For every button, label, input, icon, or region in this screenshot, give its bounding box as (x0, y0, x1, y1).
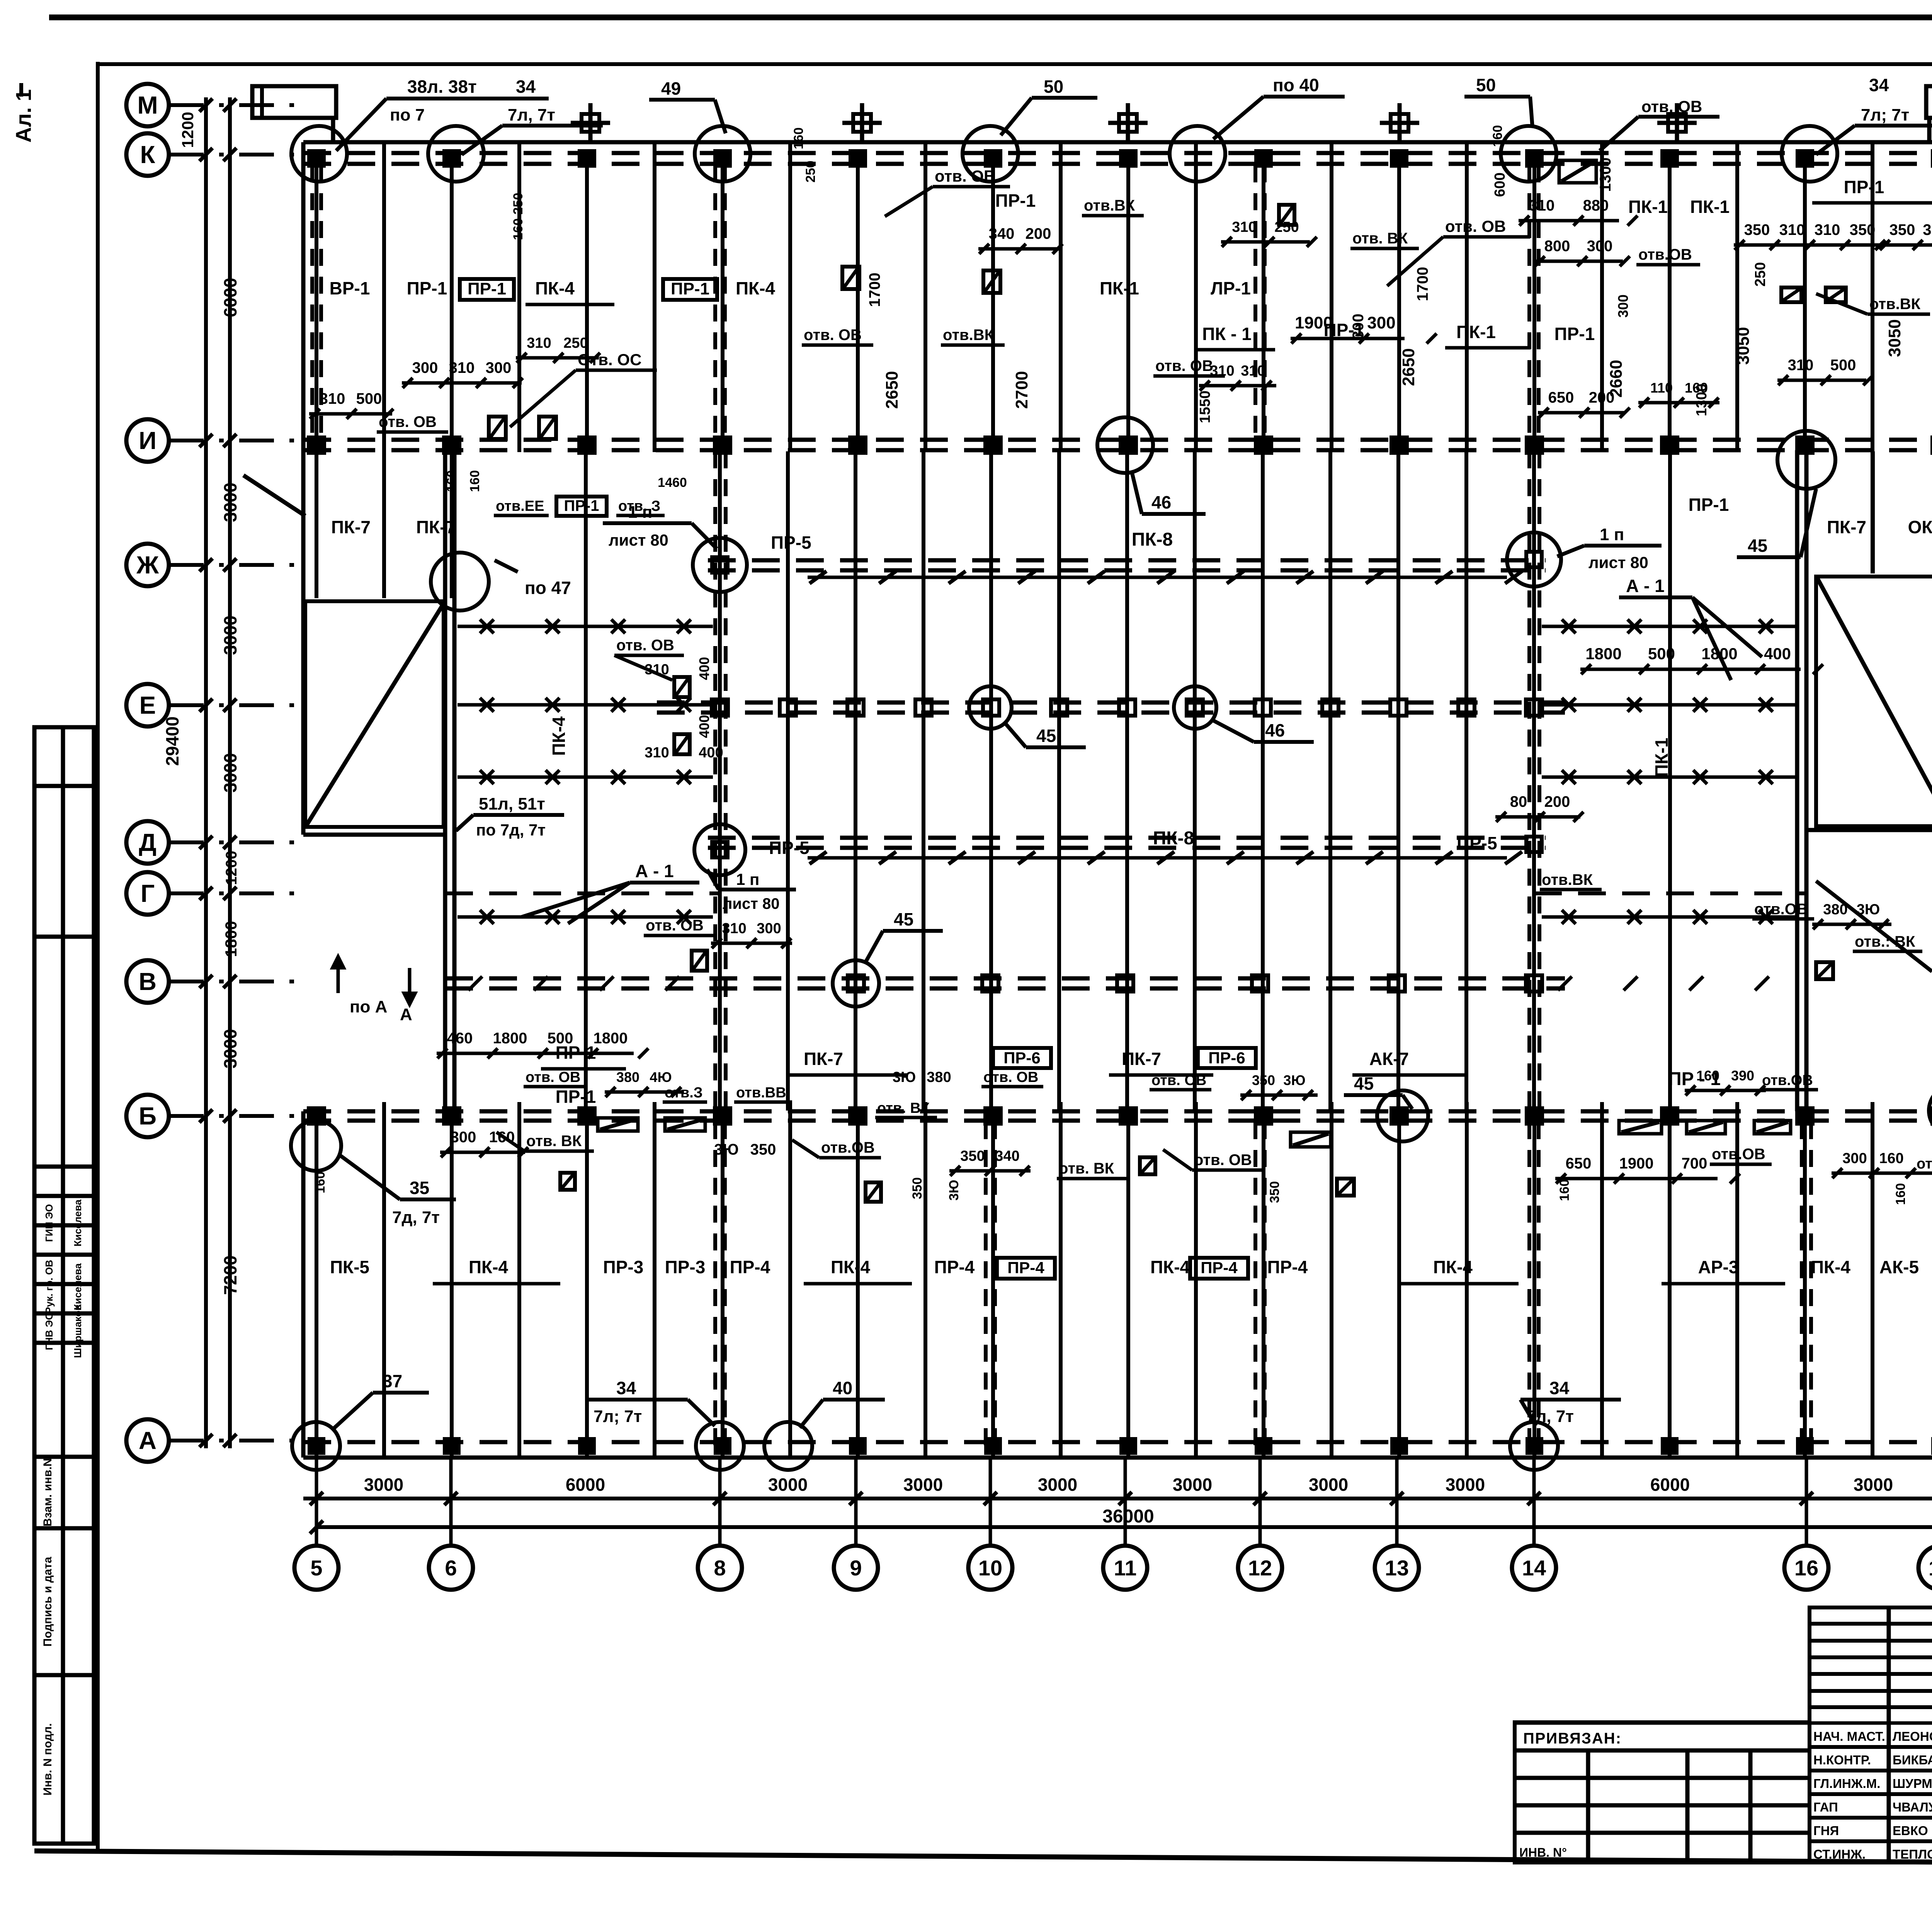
svg-text:лист 80: лист 80 (609, 531, 668, 549)
svg-text:ПР-4: ПР-4 (1201, 1259, 1238, 1277)
svg-text:отв.ЕЕ: отв.ЕЕ (496, 498, 544, 514)
svg-text:3000: 3000 (220, 1029, 240, 1068)
bottom band vent blocks (598, 1118, 638, 1131)
top band hole rect right (1279, 205, 1294, 225)
svg-text:310: 310 (320, 390, 345, 407)
svg-text:49: 49 (661, 78, 681, 99)
inner frame top line (98, 62, 1932, 66)
svg-text:1550: 1550 (1197, 391, 1213, 424)
detail circle corner B17 (1929, 1085, 1932, 1136)
svg-text:ПР-3: ПР-3 (665, 1257, 706, 1277)
svg-text:ПК-8: ПК-8 (1132, 529, 1173, 550)
svg-text:45: 45 (1748, 536, 1767, 556)
top band hole rect left (489, 417, 506, 439)
svg-text:А - 1: А - 1 (635, 861, 674, 881)
svg-text:7л, 7т: 7л, 7т (508, 105, 555, 124)
svg-text:ПК-7: ПК-7 (1122, 1049, 1161, 1069)
svg-text:ПК-7: ПК-7 (1827, 517, 1866, 537)
svg-text:ПР-1: ПР-1 (1554, 324, 1595, 344)
svg-text:ПР-4: ПР-4 (934, 1257, 975, 1277)
svg-text:110: 110 (1650, 380, 1673, 396)
svg-text:45: 45 (894, 909, 913, 929)
svg-text:ГЛ.ИНЖ.М.: ГЛ.ИНЖ.М. (1813, 1776, 1880, 1791)
svg-text:380: 380 (927, 1069, 951, 1085)
svg-text:АК-7: АК-7 (1369, 1049, 1409, 1069)
row V side ticks (468, 976, 482, 990)
svg-text:Рук. гр. ОВ: Рук. гр. ОВ (43, 1260, 55, 1313)
slab end ticks on rows B and A (382, 1102, 386, 1124)
svg-text:ПРИВЯЗАН:: ПРИВЯЗАН: (1523, 1730, 1622, 1747)
row D PR-5 squares (712, 842, 728, 857)
svg-text:500: 500 (1830, 357, 1856, 374)
svg-text:Подпись и дата: Подпись и дата (41, 1556, 54, 1647)
svg-text:отв. ОВ: отв. ОВ (983, 1069, 1038, 1085)
svg-text:ПК-1: ПК-1 (1628, 197, 1668, 217)
svg-text:ПР-1: ПР-1 (407, 278, 447, 298)
svg-text:ГНЯ: ГНЯ (1813, 1823, 1839, 1838)
svg-text:340: 340 (989, 225, 1015, 242)
svg-text:350: 350 (1252, 1072, 1275, 1088)
detail circle corner B5 (291, 1121, 341, 1171)
svg-text:по 7: по 7 (390, 105, 425, 124)
svg-text:300: 300 (757, 920, 781, 937)
svg-text:3000: 3000 (1446, 1475, 1485, 1495)
svg-text:160: 160 (1893, 1183, 1908, 1205)
axis leader line Ж (169, 563, 304, 567)
column symbols above row K (582, 114, 599, 132)
svg-text:1700: 1700 (866, 273, 883, 307)
wing I-Zh right verticals (1871, 451, 1874, 573)
svg-text:300: 300 (1615, 294, 1631, 318)
detail circle corner A5 (292, 1422, 340, 1470)
svg-text:1 п: 1 п (736, 870, 759, 888)
svg-text:Киселева: Киселева (72, 1199, 83, 1247)
left wing joint tick rows (457, 625, 713, 628)
column squares on row A (310, 1439, 323, 1453)
bottom overall dimension line 36000 (316, 1525, 1932, 1529)
svg-text:9: 9 (850, 1556, 862, 1580)
svg-text:отв. ОВ: отв. ОВ (616, 637, 674, 654)
svg-text:600: 600 (1492, 172, 1508, 197)
inner frame left line (96, 62, 100, 1853)
svg-text:35: 35 (410, 1178, 429, 1198)
svg-text:460: 460 (447, 1030, 473, 1047)
svg-text:7д, 7т: 7д, 7т (392, 1208, 440, 1227)
svg-text:800: 800 (1544, 238, 1570, 255)
section mark po A left (337, 968, 340, 993)
svg-text:1300: 1300 (1694, 384, 1710, 417)
svg-text:34: 34 (1869, 75, 1889, 95)
svg-text:ПР-1: ПР-1 (556, 1043, 596, 1063)
svg-text:3Ю: 3Ю (1283, 1072, 1305, 1088)
svg-text:11: 11 (1114, 1556, 1136, 1580)
axis leader line В (169, 980, 304, 983)
svg-text:ПР-1: ПР-1 (1844, 177, 1884, 197)
row E column squares (712, 699, 728, 716)
svg-text:отв.ОВ: отв.ОВ (1754, 901, 1808, 918)
title block signature rows (1810, 1745, 1932, 1749)
svg-text:ПР-5: ПР-5 (771, 532, 811, 553)
beam row V dashed lines (445, 976, 1565, 981)
axis circle Е (126, 684, 169, 726)
svg-text:ГАП: ГАП (1813, 1800, 1838, 1814)
svg-text:650: 650 (1566, 1155, 1592, 1172)
svg-text:700: 700 (1682, 1155, 1708, 1172)
svg-text:160: 160 (791, 128, 806, 150)
svg-text:3000: 3000 (768, 1475, 808, 1495)
svg-text:ЧВАЛУН: ЧВАЛУН (1893, 1800, 1932, 1814)
svg-text:3050: 3050 (1734, 327, 1753, 365)
svg-text:ГНВ ЭО: ГНВ ЭО (43, 1312, 55, 1350)
svg-text:М: М (137, 91, 158, 119)
stair diagonal marks far left (243, 475, 305, 516)
axis leader line И (169, 439, 304, 442)
axis circle В (126, 960, 169, 1003)
svg-text:160: 160 (468, 470, 482, 492)
left stamp column outline (34, 727, 94, 1844)
svg-text:отв. ВК: отв. ВК (1059, 1160, 1114, 1177)
svg-text:ТЕПЛОВА: ТЕПЛОВА (1893, 1847, 1932, 1861)
middle wall axis 8 dashed (713, 451, 717, 1111)
svg-text:400: 400 (696, 715, 712, 738)
svg-text:А - 1: А - 1 (1626, 576, 1665, 596)
svg-text:7200: 7200 (220, 1255, 240, 1295)
svg-text:46: 46 (1265, 720, 1285, 740)
svg-text:3000: 3000 (220, 753, 240, 793)
svg-text:А: А (400, 1005, 412, 1024)
title block main divider row (1515, 1721, 1932, 1725)
svg-text:8: 8 (714, 1556, 726, 1580)
svg-text:390: 390 (1731, 1068, 1754, 1084)
svg-text:ПК-4: ПК-4 (736, 278, 775, 298)
svg-text:ОК-7: ОК-7 (1908, 517, 1932, 537)
svg-text:отв.З: отв.З (665, 1085, 703, 1101)
svg-text:51л, 51т: 51л, 51т (479, 794, 545, 813)
svg-text:СТ.ИНЖ.: СТ.ИНЖ. (1813, 1847, 1866, 1861)
svg-text:340: 340 (995, 1148, 1019, 1164)
svg-text:34: 34 (616, 1378, 636, 1398)
top band wall axis 8 dashed (713, 165, 717, 438)
svg-text:по 7д, 7т: по 7д, 7т (476, 821, 546, 839)
bottom band slab joint verticals (315, 1122, 318, 1458)
svg-text:отв.ОВ: отв.ОВ (1638, 246, 1692, 263)
svg-text:ПК-1: ПК-1 (1100, 278, 1139, 298)
svg-text:310: 310 (1232, 219, 1256, 235)
svg-text:Г: Г (141, 879, 155, 907)
svg-text:ПК-1: ПК-1 (1651, 738, 1672, 777)
svg-text:160 250: 160 250 (511, 193, 526, 240)
svg-text:1800: 1800 (1585, 645, 1621, 663)
svg-text:отв. ВК: отв. ВК (1352, 230, 1408, 247)
svg-text:ПР-4: ПР-4 (1007, 1259, 1044, 1277)
title block signature grid verticals (1887, 1607, 1891, 1863)
svg-text:400: 400 (1764, 645, 1791, 663)
svg-text:Ж: Ж (136, 551, 159, 579)
svg-text:ПР-1: ПР-1 (995, 191, 1036, 211)
svg-text:ПК-7: ПК-7 (804, 1049, 843, 1069)
middle wall axis 14 dashed (1527, 451, 1531, 1111)
svg-text:1300: 1300 (1597, 158, 1614, 192)
svg-text:310: 310 (1815, 221, 1840, 238)
svg-text:отв.ВК: отв.ВК (1084, 197, 1135, 214)
svg-text:ПК-1: ПК-1 (1456, 322, 1496, 342)
svg-text:ПР-4: ПР-4 (730, 1257, 770, 1277)
svg-text:отв. ОВ: отв. ОВ (1445, 217, 1506, 235)
svg-text:ПР-1: ПР-1 (1689, 495, 1729, 515)
svg-text:ПР - 1: ПР - 1 (1668, 1069, 1721, 1089)
svg-text:160: 160 (1557, 1179, 1572, 1201)
svg-text:ПР-6: ПР-6 (1208, 1049, 1245, 1067)
svg-text:В: В (139, 968, 156, 995)
column squares on row K (309, 151, 324, 166)
svg-text:1460: 1460 (658, 475, 687, 490)
svg-text:1 п: 1 п (1600, 525, 1624, 544)
svg-text:1900: 1900 (1619, 1155, 1654, 1172)
detail circle pr-5 lower right (1526, 837, 1542, 852)
axis circle К (126, 133, 169, 176)
sheet outer top border line (49, 15, 1932, 20)
svg-text:ПК-7: ПК-7 (331, 517, 371, 537)
svg-text:3Ю: 3Ю (893, 1069, 916, 1085)
svg-text:ПР-3: ПР-3 (603, 1257, 644, 1277)
svg-text:ШУРМУХИНА: ШУРМУХИНА (1893, 1776, 1932, 1791)
svg-text:отв.ВК: отв.ВК (943, 327, 994, 344)
svg-text:1200: 1200 (179, 112, 197, 148)
svg-text:1200: 1200 (223, 851, 240, 885)
svg-text:отв ВК: отв ВК (1917, 1156, 1932, 1172)
left dimension ticks (199, 99, 213, 112)
svg-text:ПР-5: ПР-5 (1457, 833, 1497, 853)
svg-text:37: 37 (383, 1371, 402, 1391)
svg-text:7л; 7т: 7л; 7т (1861, 105, 1909, 124)
privyazan grid lines (1515, 1749, 1810, 1753)
svg-text:ПК-4: ПК-4 (1150, 1257, 1190, 1277)
svg-text:3Ю: 3Ю (947, 1180, 961, 1201)
svg-text:400: 400 (696, 657, 712, 680)
right wing joint tick rows (1542, 625, 1796, 628)
svg-text:И: И (139, 427, 156, 454)
svg-text:ЕВКО: ЕВКО (1893, 1823, 1928, 1838)
svg-text:310: 310 (645, 662, 669, 678)
svg-text:НАЧ. МАСТ.: НАЧ. МАСТ. (1813, 1729, 1885, 1744)
svg-text:6000: 6000 (1650, 1475, 1690, 1495)
svg-text:отв.ОВ: отв.ОВ (821, 1139, 875, 1156)
svg-text:160: 160 (313, 1172, 328, 1194)
axis leader line М (169, 103, 304, 107)
right wing vertical axis 15 (1668, 451, 1672, 1111)
callout 45 on row I right (1777, 431, 1835, 489)
axis leader line Е (169, 703, 304, 707)
svg-text:БИКБАЕВА: БИКБАЕВА (1893, 1753, 1932, 1767)
axis circle А (126, 1419, 169, 1462)
svg-text:отв. ОВ: отв. ОВ (1194, 1152, 1252, 1169)
svg-text:1800: 1800 (594, 1030, 628, 1047)
svg-text:16: 16 (1794, 1556, 1818, 1580)
detail circle pr-5 upper right (1507, 532, 1561, 587)
svg-text:Д: Д (139, 828, 156, 856)
svg-text:ИНВ. N°: ИНВ. N° (1519, 1846, 1567, 1859)
svg-text:1800: 1800 (222, 921, 240, 957)
column squares on row B (309, 1108, 324, 1124)
left stair hall outline (305, 601, 444, 827)
svg-text:отв. ОВ: отв. ОВ (1641, 97, 1702, 116)
wing I-D left edge (301, 450, 306, 835)
svg-text:1800: 1800 (493, 1030, 527, 1047)
svg-text:ГИП ЭО: ГИП ЭО (43, 1204, 55, 1242)
svg-text:отв.ВВ: отв.ВВ (736, 1085, 786, 1101)
axis circle Ж (126, 544, 169, 586)
svg-text:Ширшаков: Ширшаков (72, 1305, 83, 1358)
left wing vertical axis 7 (584, 451, 588, 1111)
svg-text:ВР-1: ВР-1 (330, 278, 370, 298)
svg-text:310: 310 (1241, 363, 1265, 379)
svg-text:6: 6 (445, 1556, 457, 1580)
svg-text:1800: 1800 (1701, 645, 1737, 663)
svg-text:Б: Б (139, 1102, 156, 1130)
svg-text:500: 500 (356, 390, 382, 407)
beam row K dashed lines (303, 151, 1932, 155)
svg-text:300: 300 (1367, 313, 1395, 332)
svg-text:Н.КОНТР.: Н.КОНТР. (1813, 1753, 1871, 1767)
row E detail circle 45 (969, 686, 1012, 729)
bottom segment dimension line (303, 1497, 1932, 1500)
svg-text:250: 250 (803, 161, 818, 183)
svg-text:ПР-1: ПР-1 (556, 1087, 596, 1107)
axis circle Б (126, 1095, 169, 1137)
sheet bottom border line (34, 1851, 1932, 1866)
svg-text:34: 34 (1549, 1378, 1570, 1398)
top band slab joint verticals (315, 165, 318, 438)
svg-text:1900: 1900 (1295, 313, 1333, 332)
svg-text:380: 380 (616, 1069, 639, 1085)
svg-text:Е: Е (139, 691, 156, 719)
svg-text:310: 310 (1210, 363, 1234, 379)
bottom band wall axis 8 dashed (713, 1122, 717, 1456)
svg-text:300: 300 (412, 359, 438, 376)
svg-text:80: 80 (1510, 793, 1527, 810)
top band wall axis 12 dashed (1253, 165, 1257, 438)
svg-text:17: 17 (1929, 1556, 1932, 1580)
axis leader line К (169, 153, 304, 156)
svg-text:отв. ОВ: отв. ОВ (1155, 357, 1213, 374)
svg-text:Взам. инв.N: Взам. инв.N (41, 1458, 54, 1527)
top band wall axis 14 dashed (1527, 165, 1531, 438)
svg-text:ПК-4: ПК-4 (549, 716, 569, 756)
svg-text:отв. ОВ: отв. ОВ (935, 167, 995, 185)
axis circle М (126, 84, 169, 126)
beam row G dashed lines in wings (445, 891, 720, 895)
svg-text:3000: 3000 (1038, 1475, 1077, 1495)
svg-text:ПР-6: ПР-6 (1003, 1049, 1041, 1067)
svg-text:350: 350 (1889, 221, 1915, 238)
detail circle pr-5 lower left (694, 824, 745, 875)
svg-text:4Ю: 4Ю (650, 1069, 672, 1085)
svg-text:ПК-1: ПК-1 (1690, 197, 1730, 217)
svg-text:40: 40 (833, 1378, 852, 1398)
svg-text:350: 350 (1267, 1181, 1282, 1203)
axis leader line А (169, 1439, 304, 1442)
row V detail circle 45 (833, 960, 879, 1007)
svg-text:310: 310 (449, 359, 475, 376)
svg-text:ПК-5: ПК-5 (330, 1257, 369, 1277)
svg-text:отв.ОВ: отв.ОВ (1762, 1072, 1813, 1089)
svg-text:1700: 1700 (1414, 267, 1431, 301)
axis leader line Г (169, 891, 304, 895)
svg-text:3000: 3000 (220, 483, 240, 522)
title block outer rectangle (1810, 1607, 1932, 1863)
svg-text:29400: 29400 (162, 716, 182, 766)
svg-text:3050: 3050 (1885, 319, 1904, 357)
svg-text:300: 300 (486, 359, 512, 376)
column squares on row I (309, 437, 324, 453)
title block privyazan block outline (1515, 1722, 1810, 1863)
svg-text:отв. ВК: отв. ВК (877, 1100, 930, 1116)
svg-text:3000: 3000 (364, 1475, 403, 1495)
svg-text:ПК-4: ПК-4 (1433, 1257, 1473, 1277)
callout 46 on row I (1097, 417, 1153, 473)
axis leader line Д (169, 840, 304, 844)
top band small holes right (1781, 287, 1801, 302)
svg-text:5: 5 (310, 1556, 322, 1580)
svg-text:6000: 6000 (566, 1475, 605, 1495)
svg-text:отв.ОВ: отв.ОВ (1712, 1146, 1765, 1163)
svg-text:ПК-4: ПК-4 (469, 1257, 508, 1277)
svg-text:350: 350 (1744, 221, 1770, 238)
svg-text:34: 34 (516, 77, 536, 97)
top band outline top edge (303, 140, 1932, 145)
svg-text:ПР-1: ПР-1 (468, 279, 506, 298)
svg-text:1 п: 1 п (628, 503, 652, 522)
top left parapet stub (252, 86, 336, 118)
svg-text:200: 200 (1544, 793, 1570, 810)
svg-text:2650: 2650 (1399, 348, 1418, 386)
axis circle И (126, 419, 169, 462)
svg-text:14: 14 (1522, 1556, 1546, 1580)
svg-text:отв. ОВ: отв. ОВ (526, 1069, 580, 1085)
svg-text:300: 300 (1587, 238, 1613, 255)
svg-text:310: 310 (1788, 357, 1814, 374)
axis row A dashed line (303, 1440, 1932, 1444)
svg-text:3Ю: 3Ю (1923, 221, 1932, 238)
svg-text:310: 310 (722, 920, 746, 937)
svg-text:Инв. N подл.: Инв. N подл. (41, 1723, 54, 1795)
svg-text:Ал. 1: Ал. 1 (11, 89, 36, 143)
PK-8 slab joint slashes upper (810, 571, 827, 583)
row V column squares (848, 975, 864, 992)
svg-text:по 47: по 47 (525, 578, 571, 598)
svg-text:10: 10 (978, 1556, 1002, 1580)
svg-text:38л. 38т: 38л. 38т (407, 77, 477, 97)
svg-text:ПК-4: ПК-4 (1811, 1257, 1850, 1277)
svg-text:13: 13 (1385, 1556, 1409, 1580)
svg-text:3000: 3000 (1309, 1475, 1348, 1495)
beam row E dashed lines (657, 701, 1565, 705)
axis circle Д (126, 821, 169, 864)
title block upper grid rows (1810, 1622, 1932, 1626)
svg-text:ЛЕОНОВ: ЛЕОНОВ (1893, 1729, 1932, 1744)
svg-text:ПР-1: ПР-1 (564, 497, 599, 514)
detail circle A axis8 (696, 1422, 744, 1470)
svg-text:отв.ВК: отв.ВК (1869, 296, 1921, 313)
svg-text:46: 46 (1151, 492, 1171, 512)
right stair hall outline (1816, 577, 1932, 826)
svg-text:250: 250 (1752, 262, 1769, 286)
PK-8 slab joint slashes lower (810, 852, 827, 864)
svg-text:300: 300 (1842, 1150, 1867, 1167)
bottom band left edge (301, 1111, 306, 1458)
svg-text:3000: 3000 (220, 616, 240, 655)
slab end ticks on rows K and I (382, 144, 386, 166)
